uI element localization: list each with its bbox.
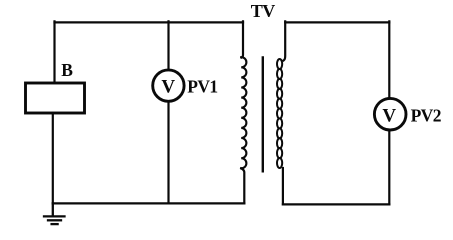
wire: primary loop top horizontal [55, 21, 244, 23]
wire: transformer secondary top lead [284, 21, 286, 60]
svg-text:B: B [61, 60, 73, 80]
wire: transformer secondary bottom lead [282, 168, 284, 204]
wire: secondary loop bottom horizontal [283, 203, 389, 205]
wire: left vertical from top wire down to battery B [53, 21, 55, 83]
voltmeter PV1 (circle) [153, 70, 184, 101]
svg-text:PV1: PV1 [187, 76, 217, 96]
svg-text:TV: TV [251, 1, 276, 21]
battery B (box) [26, 83, 85, 113]
wire: vertical from B down to bottom wire [52, 113, 54, 203]
ground [44, 203, 65, 224]
wire: PV1 top lead [167, 21, 169, 70]
wire: secondary loop top horizontal [285, 21, 389, 23]
transformer TV primary winding [241, 57, 246, 168]
wire: PV2 bottom lead [388, 130, 390, 204]
voltmeter PV2 (circle) [374, 98, 406, 130]
wire: transformer primary top lead [242, 21, 244, 57]
transformer TV core [262, 57, 264, 171]
transformer TV secondary winding [277, 59, 282, 168]
wire: PV2 top lead [388, 21, 390, 98]
wire: transformer primary bottom lead [241, 168, 244, 203]
svg-text:V: V [382, 106, 396, 127]
svg-text:V: V [161, 77, 175, 98]
wire: PV1 bottom lead [167, 101, 169, 203]
wire: primary loop bottom horizontal [53, 202, 245, 204]
svg-text:PV2: PV2 [411, 106, 441, 126]
